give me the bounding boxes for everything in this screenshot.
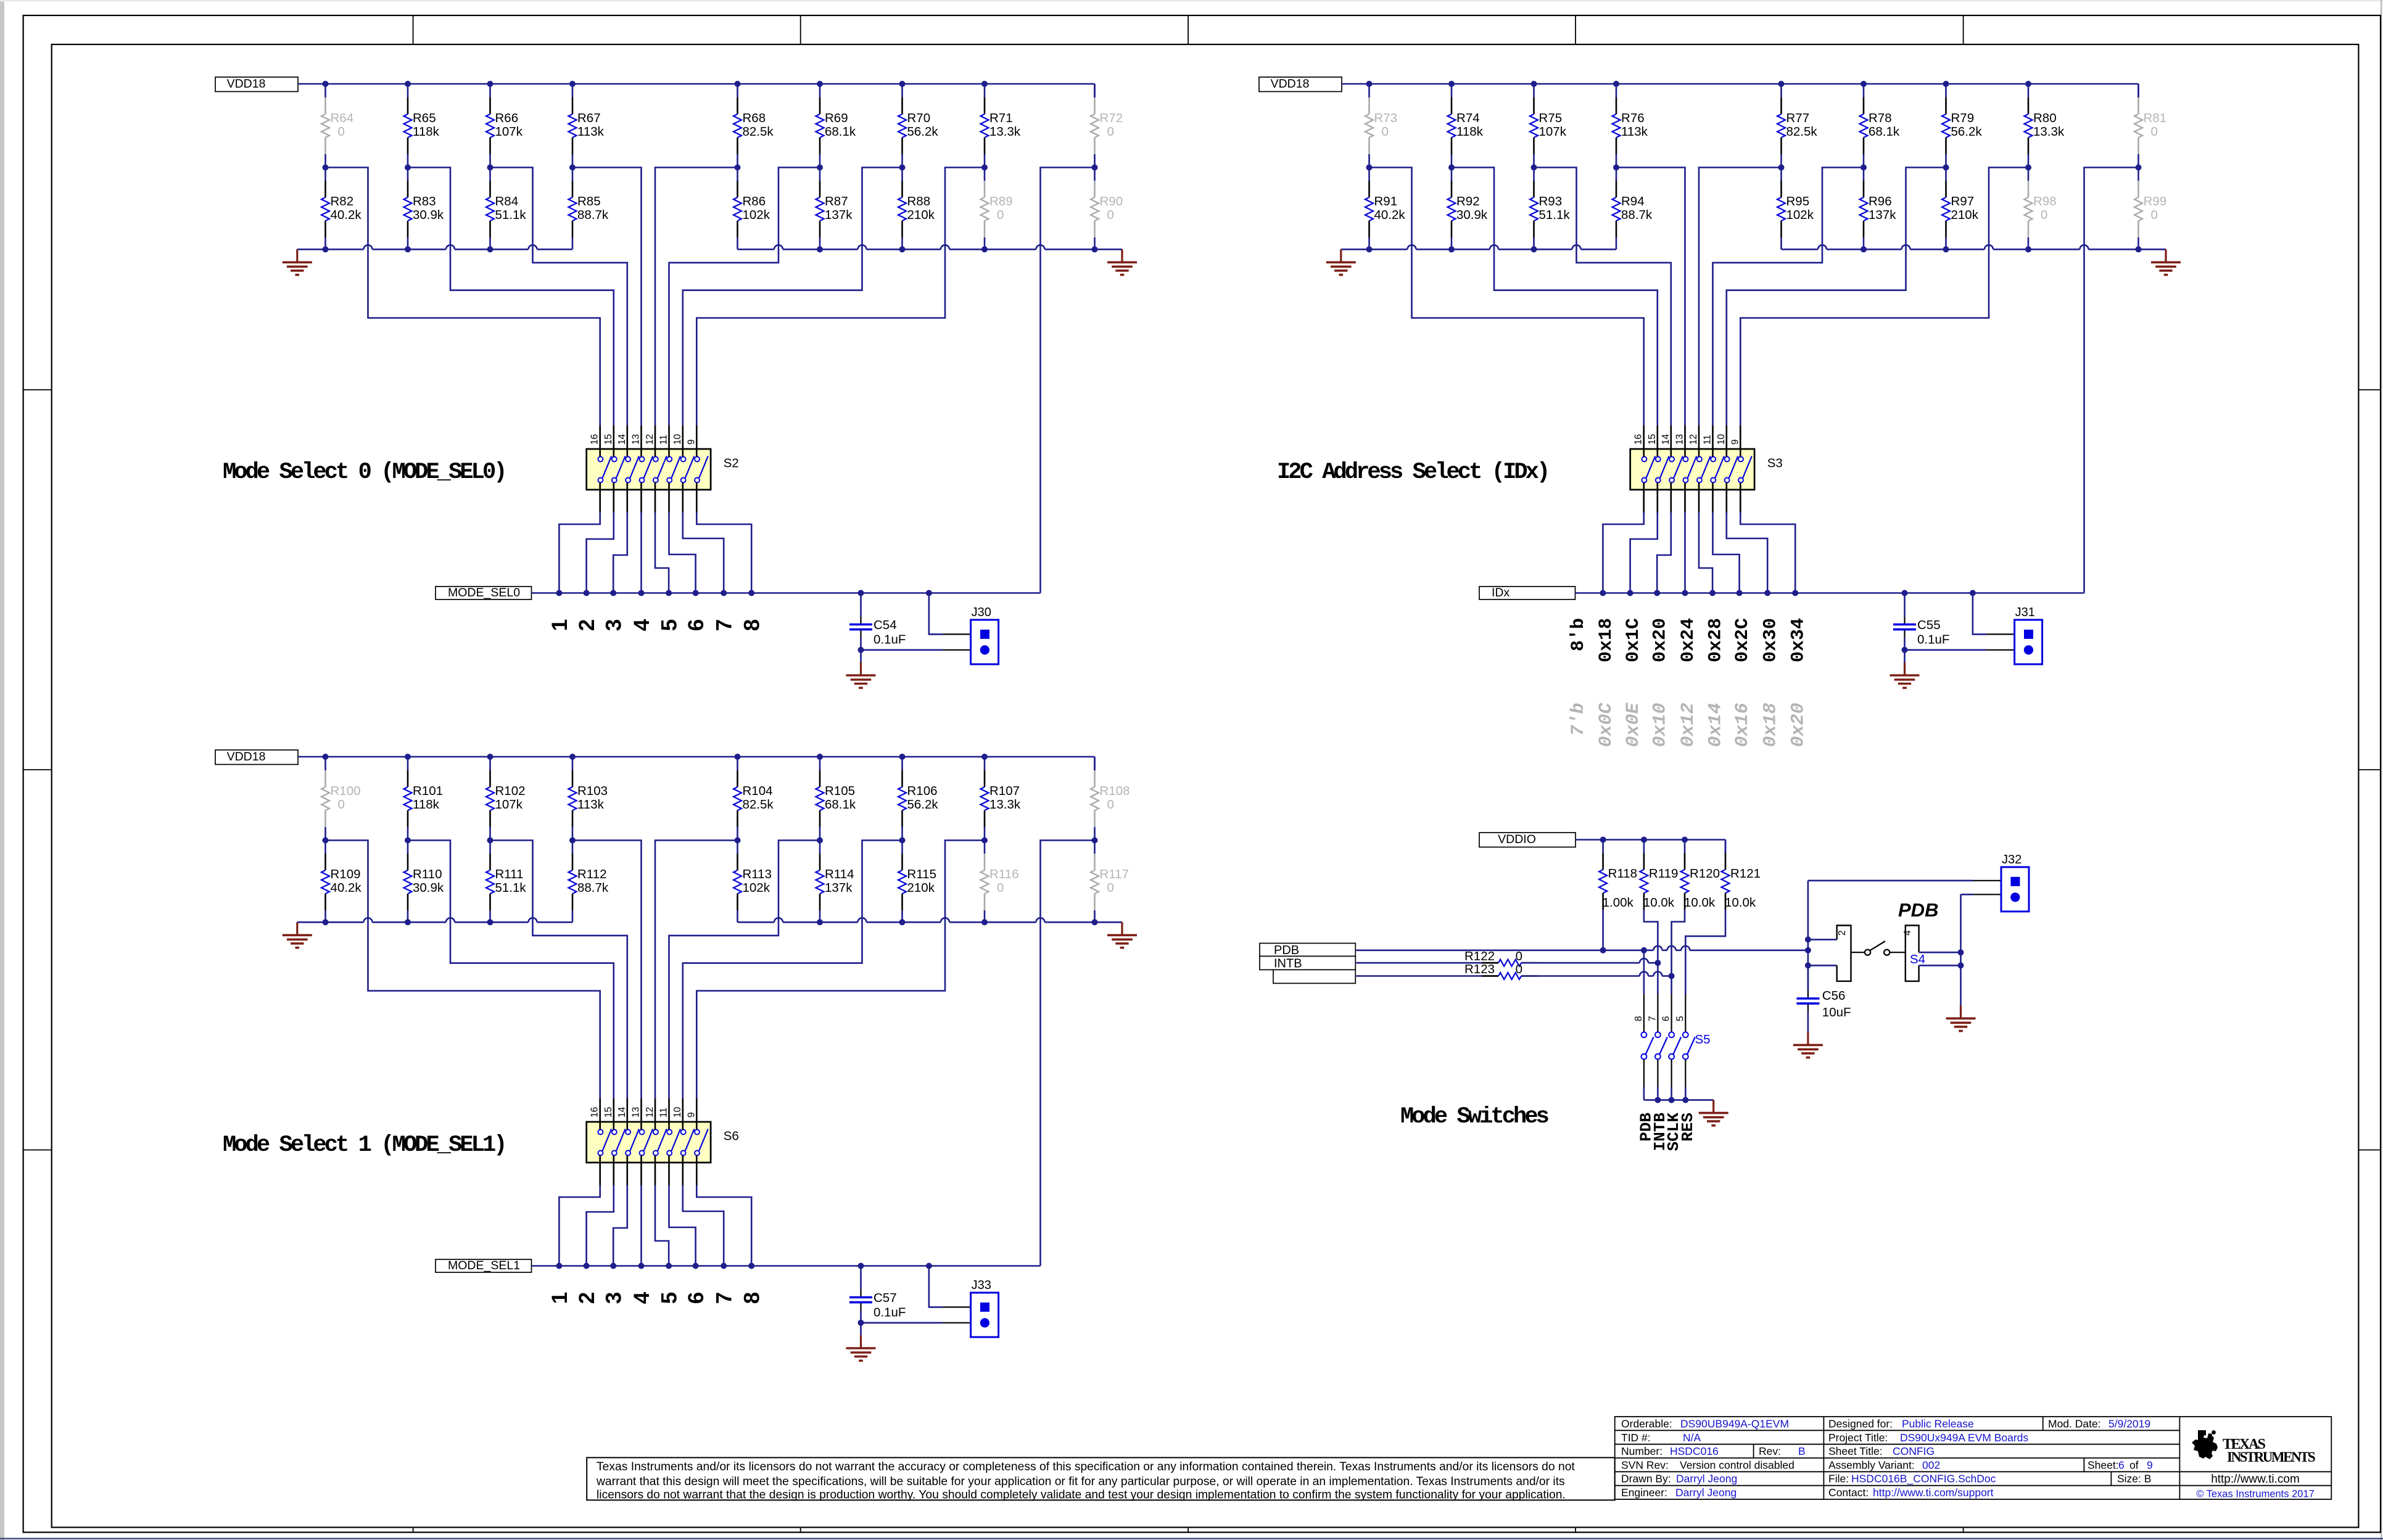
node net junction 6 [693, 1263, 699, 1269]
svg-text:R78: R78 [1869, 111, 1892, 125]
node S4 left node junctions [1807, 881, 1809, 991]
node bus junction [1448, 246, 1455, 252]
node mid junction col6 [817, 838, 823, 844]
svg-text:0: 0 [1107, 125, 1114, 139]
pin 16 of S6 [599, 1098, 601, 1130]
node net junction 5 [1709, 590, 1716, 596]
node mid junction col1 [1366, 165, 1373, 171]
svg-text:R71: R71 [989, 111, 1013, 125]
ground under C57 [860, 1323, 862, 1335]
svg-text:13: 13 [631, 434, 642, 445]
ground (left bus) [1340, 249, 1342, 262]
node VDDIO junction [1600, 837, 1606, 843]
wire R121 to S5 pin 5 (RES) [1685, 910, 1725, 994]
power port VDDIO [1479, 833, 1576, 847]
svg-text:0x20: 0x20 [1650, 618, 1671, 662]
svg-text:MODE_SEL1: MODE_SEL1 [448, 1259, 520, 1272]
resistor R81 [2137, 84, 2139, 97]
connector J33 [971, 1293, 999, 1337]
node bus junction [487, 919, 494, 925]
wire switch pin 8 to net [696, 513, 751, 593]
svg-text:R95: R95 [1786, 194, 1810, 208]
resistor R72 [1094, 84, 1096, 97]
wire mid col9 down to net [1041, 168, 1095, 593]
wire mid col3 to switch pin 14 [490, 168, 627, 426]
node C57 bottom junction [858, 1320, 864, 1326]
resistor R73 [1368, 84, 1370, 97]
svg-text:9: 9 [686, 439, 696, 445]
resistor R102 [489, 757, 491, 770]
svg-text:Rev:: Rev: [1759, 1445, 1781, 1457]
svg-text:10.0k: 10.0k [1725, 896, 1756, 910]
pin 10 of S2 [682, 426, 684, 457]
svg-text:R87: R87 [825, 194, 848, 208]
node net junction 8 [748, 1263, 754, 1269]
svg-text:Designed for:: Designed for: [1828, 1418, 1893, 1430]
node S5 gnd junction [1669, 1097, 1675, 1103]
node R119-INTB junction [1654, 960, 1661, 966]
pin 12 of S3 [1698, 426, 1700, 457]
svg-text:S4: S4 [1910, 952, 1925, 966]
svg-text:Texas Instruments and/or its l: Texas Instruments and/or its licensors d… [597, 1460, 1575, 1473]
svg-text:R120: R120 [1690, 867, 1720, 881]
svg-text:14: 14 [617, 434, 627, 445]
svg-text:68.1k: 68.1k [1869, 125, 1900, 139]
node bus junction [817, 919, 823, 925]
pin 11 of S3 [1712, 426, 1714, 457]
svg-text:13.3k: 13.3k [989, 125, 1021, 139]
wire C55 to J31 pin 2 [1905, 649, 1987, 651]
node rail junction R105 [817, 754, 823, 760]
port PDB [1260, 943, 1355, 956]
resistor R65 [407, 84, 409, 97]
pin 1 of S6 [599, 1156, 601, 1186]
node net junction 7 [721, 590, 727, 596]
svg-text:IDx: IDx [1492, 586, 1510, 599]
node rail junction R75 [1531, 81, 1537, 87]
wire SCLK line (right) [1521, 975, 1640, 977]
svg-text:8: 8 [740, 619, 764, 631]
wire mid col4 to switch pin 13 [1616, 168, 1685, 426]
wire switch pin 2 to net [587, 1185, 614, 1266]
svg-text:56.2k: 56.2k [907, 125, 939, 139]
node mid junction col4 [1613, 165, 1619, 171]
svg-text:0x14: 0x14 [1706, 703, 1727, 747]
switch S4 (left half) [1808, 939, 1837, 941]
svg-text:11: 11 [659, 1108, 669, 1118]
wire C57 to J33 pin 2 [861, 1322, 943, 1324]
capacitor C54 0.1uF [858, 590, 864, 596]
svg-text:HSDC016B_CONFIG.SchDoc: HSDC016B_CONFIG.SchDoc [1851, 1473, 1996, 1486]
pin 15 of S3 [1657, 426, 1659, 457]
node bus junction [2136, 246, 2142, 252]
svg-text:Version control disabled: Version control disabled [1680, 1459, 1794, 1471]
svg-text:107k: 107k [495, 125, 523, 139]
svg-text:0: 0 [1107, 797, 1114, 812]
svg-text:warrant that this design will: warrant that this design will meet the s… [596, 1475, 1565, 1488]
switch S4 (right half) [1906, 926, 1919, 981]
svg-text:88.7k: 88.7k [577, 881, 609, 895]
node mid junction col7 [1943, 165, 1949, 171]
resistor R83 [407, 168, 409, 181]
svg-text:88.7k: 88.7k [577, 208, 609, 222]
pin 5 of S6 [655, 1156, 656, 1186]
page edge strip [0, 0, 4, 1540]
port INTB [1260, 956, 1355, 970]
switch S5 pole 8 (PDB) [1643, 994, 1645, 1032]
resistor R71 [984, 84, 986, 97]
svg-text:3: 3 [602, 619, 626, 631]
svg-text:R65: R65 [413, 111, 436, 125]
node net junction 6 [693, 590, 699, 596]
pin 11 of S6 [668, 1098, 670, 1130]
svg-text:2: 2 [575, 619, 599, 631]
node mid junction col2 [405, 838, 411, 844]
svg-text:0x12: 0x12 [1678, 703, 1699, 747]
node mid junction col4 [569, 838, 576, 844]
node net junction 5 [666, 1263, 672, 1269]
wire mid col1 to switch pin 16 [1369, 168, 1644, 426]
node net junction 3 [610, 590, 616, 596]
pin 7 of S6 [682, 1156, 684, 1186]
svg-text:R81: R81 [2144, 111, 2167, 125]
svg-text:6: 6 [684, 619, 708, 631]
svg-text:0: 0 [997, 208, 1004, 222]
svg-text:© Texas Instruments 2017: © Texas Instruments 2017 [2196, 1489, 2315, 1500]
logo Texas Instruments [2192, 1430, 2218, 1459]
wire mid col8 to switch pin 9 [1740, 168, 2028, 426]
svg-text:102k: 102k [743, 208, 770, 222]
svg-text:INSTRUMENTS: INSTRUMENTS [2227, 1449, 2315, 1465]
wire INTB line (right) [1521, 962, 1640, 964]
node mid junction col1 [323, 838, 329, 844]
svg-text:R100: R100 [331, 784, 361, 798]
resistor R117 [1094, 841, 1096, 854]
node mid junction col2 [405, 165, 411, 171]
wire mid col9 down to net [1041, 841, 1095, 1266]
node rail junction R70 [899, 81, 906, 87]
svg-text:7: 7 [712, 1292, 737, 1304]
wire mid col1 to switch pin 16 [326, 168, 600, 426]
svg-text:R98: R98 [2033, 194, 2057, 208]
svg-text:7: 7 [712, 619, 737, 631]
svg-text:88.7k: 88.7k [1621, 208, 1653, 222]
svg-text:13: 13 [1675, 434, 1685, 445]
resistor R118 [1602, 840, 1604, 854]
node net junction 7 [1764, 590, 1770, 596]
pin 9 of S6 [696, 1098, 698, 1130]
wire switch pin 7 to net [683, 513, 724, 593]
wire switch pin 8 to net [696, 1185, 751, 1266]
svg-text:0x20: 0x20 [1788, 703, 1809, 747]
svg-text:R73: R73 [1374, 111, 1398, 125]
svg-text:0x28: 0x28 [1706, 618, 1727, 662]
svg-text:0x18: 0x18 [1596, 618, 1617, 662]
node net junction 2 [1627, 590, 1633, 596]
svg-text:51.1k: 51.1k [495, 881, 527, 895]
border zone ticks [413, 15, 414, 44]
svg-text:R101: R101 [413, 784, 443, 798]
resistor R95 [1780, 168, 1782, 181]
svg-text:0x10: 0x10 [1650, 703, 1671, 747]
svg-text:R80: R80 [2033, 111, 2057, 125]
node mid junction col6 [1861, 165, 1867, 171]
resistor R114 [819, 841, 821, 854]
node bus junction [1092, 919, 1098, 925]
svg-text:R105: R105 [825, 784, 855, 798]
node net junction 8 [1792, 590, 1798, 596]
wire net to J30 pin 1 [926, 590, 932, 596]
node rail junction R106 [899, 754, 906, 760]
svg-text:R69: R69 [825, 111, 848, 125]
svg-text:68.1k: 68.1k [825, 125, 856, 139]
svg-text:R107: R107 [989, 784, 1020, 798]
node mid junction col5 [1778, 165, 1785, 171]
pin 2 of S2 [613, 483, 614, 513]
svg-text:R116: R116 [989, 867, 1019, 881]
svg-text:R118: R118 [1608, 867, 1638, 881]
resistor R111 [489, 841, 491, 854]
svg-text:8: 8 [1633, 1016, 1644, 1021]
wire switch pin 5 to net [655, 1185, 669, 1266]
resistor R74 [1451, 84, 1453, 97]
resistor R80 [2028, 84, 2030, 97]
wire right ground bus [738, 921, 775, 923]
node mid junction col8 [981, 838, 988, 844]
pin 4 of S6 [640, 1156, 642, 1186]
svg-text:0: 0 [338, 797, 345, 812]
port (unnamed) [1273, 970, 1355, 983]
wire S5 pin 8 to PDB line [1643, 950, 1645, 994]
svg-text:R64: R64 [331, 111, 354, 125]
wire mid col2 to switch pin 15 [408, 841, 614, 1099]
svg-text:R92: R92 [1456, 194, 1480, 208]
node bus junction [1092, 246, 1098, 252]
wire mid col4 to switch pin 13 [572, 841, 642, 1099]
node mid junction col9 [1092, 165, 1098, 171]
svg-text:R89: R89 [989, 194, 1013, 208]
connector J30 [971, 620, 999, 664]
svg-text:113k: 113k [1621, 125, 1648, 139]
node R120-SCLK junction [1669, 973, 1675, 979]
svg-text:C55: C55 [1917, 618, 1941, 632]
svg-text:R123: R123 [1464, 962, 1495, 976]
node rail junction R104 [735, 754, 741, 760]
svg-text:DS90Ux949A EVM Boards: DS90Ux949A EVM Boards [1900, 1431, 2028, 1444]
pin 1 of S2 [599, 483, 601, 513]
svg-text:113k: 113k [577, 125, 605, 139]
svg-text:R94: R94 [1621, 194, 1645, 208]
svg-text:R67: R67 [577, 111, 601, 125]
pin 7 of S3 [1726, 483, 1728, 513]
svg-text:0x24: 0x24 [1678, 618, 1699, 662]
node rail junction R65 [405, 81, 411, 87]
ground (S5) [1712, 1100, 1714, 1113]
pin 8 of S3 [1740, 483, 1741, 513]
svg-text:0: 0 [1107, 208, 1114, 222]
wire mid col3 to switch pin 14 [490, 841, 627, 1099]
svg-text:5: 5 [1675, 1016, 1685, 1021]
svg-text:102k: 102k [1786, 208, 1814, 222]
svg-text:11: 11 [659, 435, 669, 445]
svg-text:107k: 107k [1539, 125, 1567, 139]
wire right ground bus [738, 249, 775, 250]
node mid junction col3 [487, 838, 494, 844]
pin 5 of S2 [655, 483, 656, 513]
wire C54 to J30 pin 2 [861, 649, 943, 651]
svg-text:11: 11 [1703, 435, 1713, 445]
svg-text:0: 0 [1107, 881, 1114, 895]
ground (left bus) [296, 249, 298, 262]
svg-text:0.1uF: 0.1uF [1917, 633, 1949, 647]
svg-text:Contact:: Contact: [1828, 1486, 1869, 1499]
wire mid col3 to switch pin 14 [1534, 168, 1671, 426]
resistor R79 [1945, 84, 1947, 97]
resistor R121 [1725, 840, 1727, 854]
node mid junction col8 [2025, 165, 2031, 171]
svg-text:SVN Rev:: SVN Rev: [1621, 1459, 1669, 1471]
resistor R105 [819, 757, 821, 770]
resistor R104 [737, 757, 738, 770]
svg-text:137k: 137k [825, 208, 853, 222]
svg-text:0x30: 0x30 [1761, 618, 1782, 662]
svg-text:Drawn By:: Drawn By: [1621, 1473, 1671, 1485]
resistor R89 [984, 168, 986, 181]
wire mid col2 to switch pin 15 [408, 168, 614, 426]
wire S5 ground bus [1643, 1087, 1645, 1100]
wire to J32 pin 2 [1961, 894, 1973, 896]
pin 14 of S6 [626, 1098, 628, 1130]
svg-text:5/9/2019: 5/9/2019 [2108, 1418, 2150, 1430]
svg-text:http://www.ti.com: http://www.ti.com [2211, 1473, 2300, 1486]
wire switch pin 1 to net [559, 513, 600, 593]
node mid junction col3 [487, 165, 494, 171]
wire mid col1 to switch pin 16 [326, 841, 600, 1099]
resistor R86 [737, 168, 738, 181]
svg-text:R112: R112 [577, 867, 607, 881]
switch S5 pole 7 (INTB) [1657, 994, 1658, 1032]
svg-text:82.5k: 82.5k [743, 125, 774, 139]
power port VDD18 (MODE_SEL1 block) [215, 750, 298, 765]
svg-text:7'b: 7'b [1568, 703, 1589, 736]
pin 7 of S2 [682, 483, 684, 513]
wire mid col6 to switch pin 11 [669, 841, 820, 1099]
pin 13 of S3 [1684, 426, 1686, 457]
resistor R64 [324, 84, 326, 97]
svg-text:R99: R99 [2144, 194, 2167, 208]
resistor R109 [324, 841, 326, 854]
node mid junction col9 [2136, 165, 2142, 171]
svg-text:15: 15 [603, 434, 614, 445]
svg-text:R103: R103 [577, 784, 608, 798]
svg-text:0x34: 0x34 [1788, 618, 1809, 662]
wire mid col5 to switch pin 12 [1699, 168, 1782, 426]
pin 13 of S6 [640, 1098, 642, 1130]
wire mid col6 to switch pin 11 [669, 168, 820, 426]
node rail junction R100 [323, 754, 329, 760]
node bus junction [899, 919, 906, 925]
svg-text:4: 4 [1902, 930, 1913, 936]
wire R120 to SCLK line / S5 pin 6 [1672, 910, 1685, 994]
node mid junction col3 [1531, 165, 1537, 171]
svg-text:MODE_SEL0: MODE_SEL0 [448, 586, 520, 599]
svg-text:R85: R85 [577, 194, 601, 208]
svg-text:R66: R66 [495, 111, 519, 125]
resistor R103 [572, 757, 574, 770]
svg-text:5: 5 [658, 1292, 682, 1304]
ground under C55 [1904, 650, 1906, 662]
resistor R78 [1863, 84, 1865, 97]
svg-text:0: 0 [1516, 962, 1522, 976]
svg-text:2: 2 [575, 1292, 599, 1304]
resistor R122 0 [1482, 962, 1498, 964]
svg-text:30.9k: 30.9k [413, 881, 444, 895]
pin 15 of S2 [613, 426, 614, 457]
svg-text:Mode Switches: Mode Switches [1400, 1104, 1548, 1130]
disclaimer box [587, 1457, 1615, 1500]
svg-text:N/A: N/A [1683, 1431, 1701, 1444]
svg-text:Darryl Jeong: Darryl Jeong [1675, 1486, 1737, 1499]
svg-text:R110: R110 [413, 867, 442, 881]
svg-text:Assembly Variant:: Assembly Variant: [1828, 1459, 1915, 1471]
svg-text:Darryl Jeong: Darryl Jeong [1676, 1473, 1737, 1485]
net label IDx [1479, 587, 1576, 599]
node bus junction [981, 246, 988, 252]
resistor R70 [901, 84, 903, 97]
pin 6 of S2 [668, 483, 670, 513]
pin 6 of S3 [1712, 483, 1714, 513]
resistor R88 [901, 168, 903, 181]
resistor R112 [572, 841, 574, 854]
resistor R110 [407, 841, 409, 854]
svg-text:R79: R79 [1951, 111, 1975, 125]
svg-text:VDD18: VDD18 [1271, 77, 1310, 91]
title block table [1615, 1417, 2332, 1499]
wire INTB line (left) [1357, 962, 1499, 964]
node rail junction R79 [1943, 81, 1949, 87]
svg-text:4: 4 [630, 619, 654, 631]
svg-text:R74: R74 [1456, 111, 1480, 125]
pin 1 of S3 [1643, 483, 1645, 513]
node PDB-R118 junction [1600, 947, 1606, 953]
resistor R116 [984, 841, 986, 854]
svg-text:R113: R113 [743, 867, 772, 881]
svg-text:R122: R122 [1464, 949, 1495, 963]
pin 3 of S3 [1671, 483, 1672, 513]
svg-text:1.00k: 1.00k [1603, 896, 1634, 910]
svg-text:R109: R109 [331, 867, 361, 881]
resistor R75 [1533, 84, 1535, 97]
node net junction 2 [584, 590, 590, 596]
pin 12 of S2 [655, 426, 656, 457]
resistor R91 [1368, 168, 1370, 181]
wire switch pin 1 to net [1603, 513, 1643, 593]
wire switch pin 4 to net [1684, 513, 1686, 593]
node bus junction [323, 919, 329, 925]
svg-text:8: 8 [740, 1292, 764, 1304]
svg-text:56.2k: 56.2k [1951, 125, 1983, 139]
svg-text:3: 3 [602, 1292, 626, 1304]
svg-text:1: 1 [548, 1292, 572, 1304]
svg-text:J32: J32 [2002, 853, 2022, 867]
switch S5 pole 5 (RES) [1685, 994, 1686, 1032]
svg-text:C54: C54 [873, 618, 897, 632]
svg-text:R108: R108 [1100, 784, 1130, 798]
switch S5 pole 6 (SCLK) [1671, 994, 1672, 1032]
svg-text:210k: 210k [907, 208, 935, 222]
node rail junction R66 [487, 81, 494, 87]
pin 13 of S2 [640, 426, 642, 457]
